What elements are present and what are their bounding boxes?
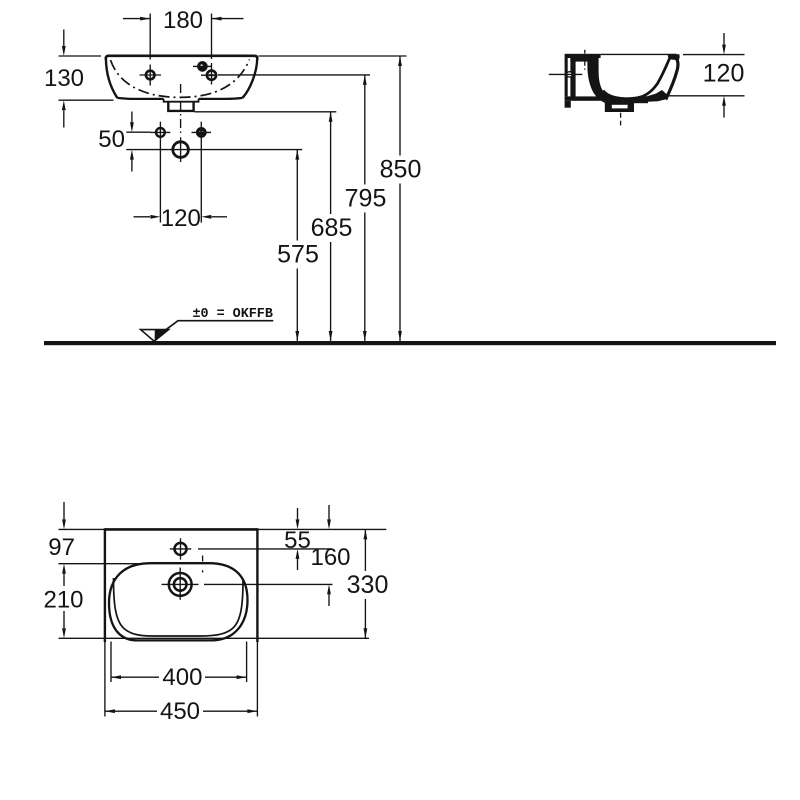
front view right mounting hole white bar <box>199 131 204 133</box>
svg-text:55: 55 <box>284 527 311 554</box>
side view top rim bar <box>565 54 601 58</box>
front view right faucet hole upper (filled) <box>198 62 206 70</box>
dim 120 left extension line <box>159 122 161 223</box>
dim 120 side bottom reference line <box>668 95 745 97</box>
svg-text:120: 120 <box>703 60 745 88</box>
floor level leader line <box>163 321 273 332</box>
side view spout outer curve <box>666 57 678 100</box>
plan view top reference extension right <box>257 528 386 530</box>
plan view rect left edge <box>104 528 106 642</box>
svg-text:850: 850 <box>380 156 422 184</box>
dim 180 left extension line <box>149 14 151 60</box>
side view left strip <box>570 58 575 97</box>
dim 120 right arrow <box>212 216 228 218</box>
dim 120 right extension line <box>200 122 202 223</box>
side view tap hole crosshair <box>549 73 583 75</box>
svg-text:210: 210 <box>43 586 83 613</box>
dim 120 left arrow <box>134 216 151 218</box>
front view drain circle <box>173 142 189 158</box>
dim 120 side bottom arrow <box>723 106 725 118</box>
plan view drain outer circle <box>169 573 192 596</box>
front view drain circle crosshair <box>169 137 193 162</box>
dim 55 bottom arrow <box>297 559 299 570</box>
side view back wall band <box>587 58 612 105</box>
dim 210 bottom arrow <box>63 611 65 628</box>
plan view alternate hole tick <box>202 556 204 573</box>
svg-text:575: 575 <box>277 241 319 269</box>
svg-text:±0 = OKFFB: ±0 = OKFFB <box>193 307 273 322</box>
dim 55 top arrow <box>297 508 299 519</box>
reference line drain box to 685 <box>195 111 337 113</box>
side view tap hole circle <box>567 72 572 77</box>
dim 130 bottom arrow <box>63 111 65 128</box>
side view bottom ledge <box>565 96 610 100</box>
svg-text:120: 120 <box>161 205 201 232</box>
plan view bowl inner outline <box>114 578 244 636</box>
svg-text:50: 50 <box>98 126 125 153</box>
front view basin bottom edge left part <box>117 98 163 99</box>
side view right step <box>634 98 648 103</box>
dim 130 top reference line <box>59 55 102 57</box>
front view basin right side <box>243 59 258 98</box>
side view back rim line <box>601 53 677 55</box>
front view left mounting hole crosshair <box>151 131 171 133</box>
side view faucet center tick <box>584 50 586 70</box>
front view right mounting hole crosshair <box>192 131 212 133</box>
front view center line (dash-dot) <box>180 84 182 136</box>
dim 400 right extension line <box>246 642 248 683</box>
dim 50 top reference line <box>126 131 150 133</box>
side view bottom right blob <box>636 90 668 102</box>
dim 850 vertical line <box>399 56 401 341</box>
svg-text:97: 97 <box>48 534 75 561</box>
reference line drain center to 575 <box>192 149 302 151</box>
front view basin left side <box>106 59 117 98</box>
plan view drain crosshair <box>162 568 199 600</box>
svg-text:330: 330 <box>347 571 389 599</box>
svg-text:180: 180 <box>163 7 203 34</box>
front view left mounting hole <box>156 128 165 137</box>
dim 330 vertical line <box>364 529 366 638</box>
plan view rect right edge <box>256 528 258 642</box>
side view drain box slot <box>612 105 628 109</box>
plan view drain inner circle <box>174 578 187 591</box>
plan view faucet hole <box>175 543 187 555</box>
svg-text:450: 450 <box>160 698 200 725</box>
dim 180 right extension line <box>211 14 213 85</box>
side view drain center dashes <box>620 113 622 126</box>
dim 400 left extension line <box>110 642 112 683</box>
dim 450 dimension line <box>105 710 258 712</box>
plan view drain reference line right <box>204 583 333 585</box>
dim 180 left arrow <box>123 18 150 20</box>
dim 575 vertical line <box>296 150 298 341</box>
plan view top reference extension left <box>59 528 105 530</box>
side view bowl interior curve <box>603 59 670 99</box>
dim 160 top arrow <box>328 505 330 519</box>
dim 795 vertical line <box>364 75 366 341</box>
dim 50 top arrow <box>131 112 133 123</box>
front view left faucet hole crosshair <box>140 65 162 86</box>
front view drain lip <box>164 99 199 102</box>
dim 97 top arrow <box>63 502 65 519</box>
front view right faucet hole upper white speck <box>200 64 202 66</box>
plan view rect top edge <box>105 528 258 531</box>
plan view bottom reference line <box>59 637 370 639</box>
plan view faucet reference line right <box>198 548 332 550</box>
front view drain box <box>168 102 193 111</box>
side view under-rim strip <box>570 58 587 62</box>
dim 120 side top arrow <box>723 33 725 45</box>
floor level symbol triangle <box>141 330 169 342</box>
side view wall bar upper <box>565 58 568 96</box>
front view interior hidden bowl curve (dash-dot) <box>111 60 250 98</box>
front view right mounting hole (filled) <box>197 128 206 137</box>
front view right faucet hole upper crosshair <box>193 65 212 67</box>
dim 120 side top reference line <box>683 54 745 56</box>
plan view bowl outer outline <box>109 563 248 640</box>
svg-text:130: 130 <box>44 65 84 92</box>
dim 400 dimension line <box>111 676 247 678</box>
floor line <box>44 341 776 345</box>
svg-text:400: 400 <box>162 664 202 691</box>
side view drain box <box>605 101 634 112</box>
dim 180 right arrow <box>212 18 244 20</box>
dim 50 bottom reference line <box>126 149 169 151</box>
svg-text:795: 795 <box>345 185 387 213</box>
reference line faucet level to 795 <box>218 74 370 76</box>
dim 130 bottom reference line <box>59 99 114 101</box>
side view bowl bottom band <box>600 91 649 102</box>
dim 160 bottom arrow <box>328 594 330 606</box>
dim 210 top arrow <box>63 574 65 586</box>
front view left faucet hole <box>146 71 155 80</box>
dim 130 top arrow <box>63 30 65 47</box>
front view right faucet hole lower <box>207 71 216 80</box>
plan view left reference line at bowl top <box>59 563 149 565</box>
svg-text:685: 685 <box>311 214 353 242</box>
front view basin bottom edge right part <box>199 98 243 99</box>
dim 685 vertical line <box>330 112 332 341</box>
front view right faucet hole lower slot <box>209 74 215 76</box>
front view right faucet hole lower crosshair <box>201 74 218 76</box>
side view rim tip <box>668 54 680 60</box>
front view basin top edge <box>106 56 257 60</box>
reference line basin top to 850 <box>259 55 407 57</box>
side view wall bar lower <box>565 101 571 108</box>
svg-text:160: 160 <box>310 544 350 571</box>
plan view faucet hole crosshair <box>170 538 192 559</box>
dim 50 bottom arrow <box>131 160 133 172</box>
